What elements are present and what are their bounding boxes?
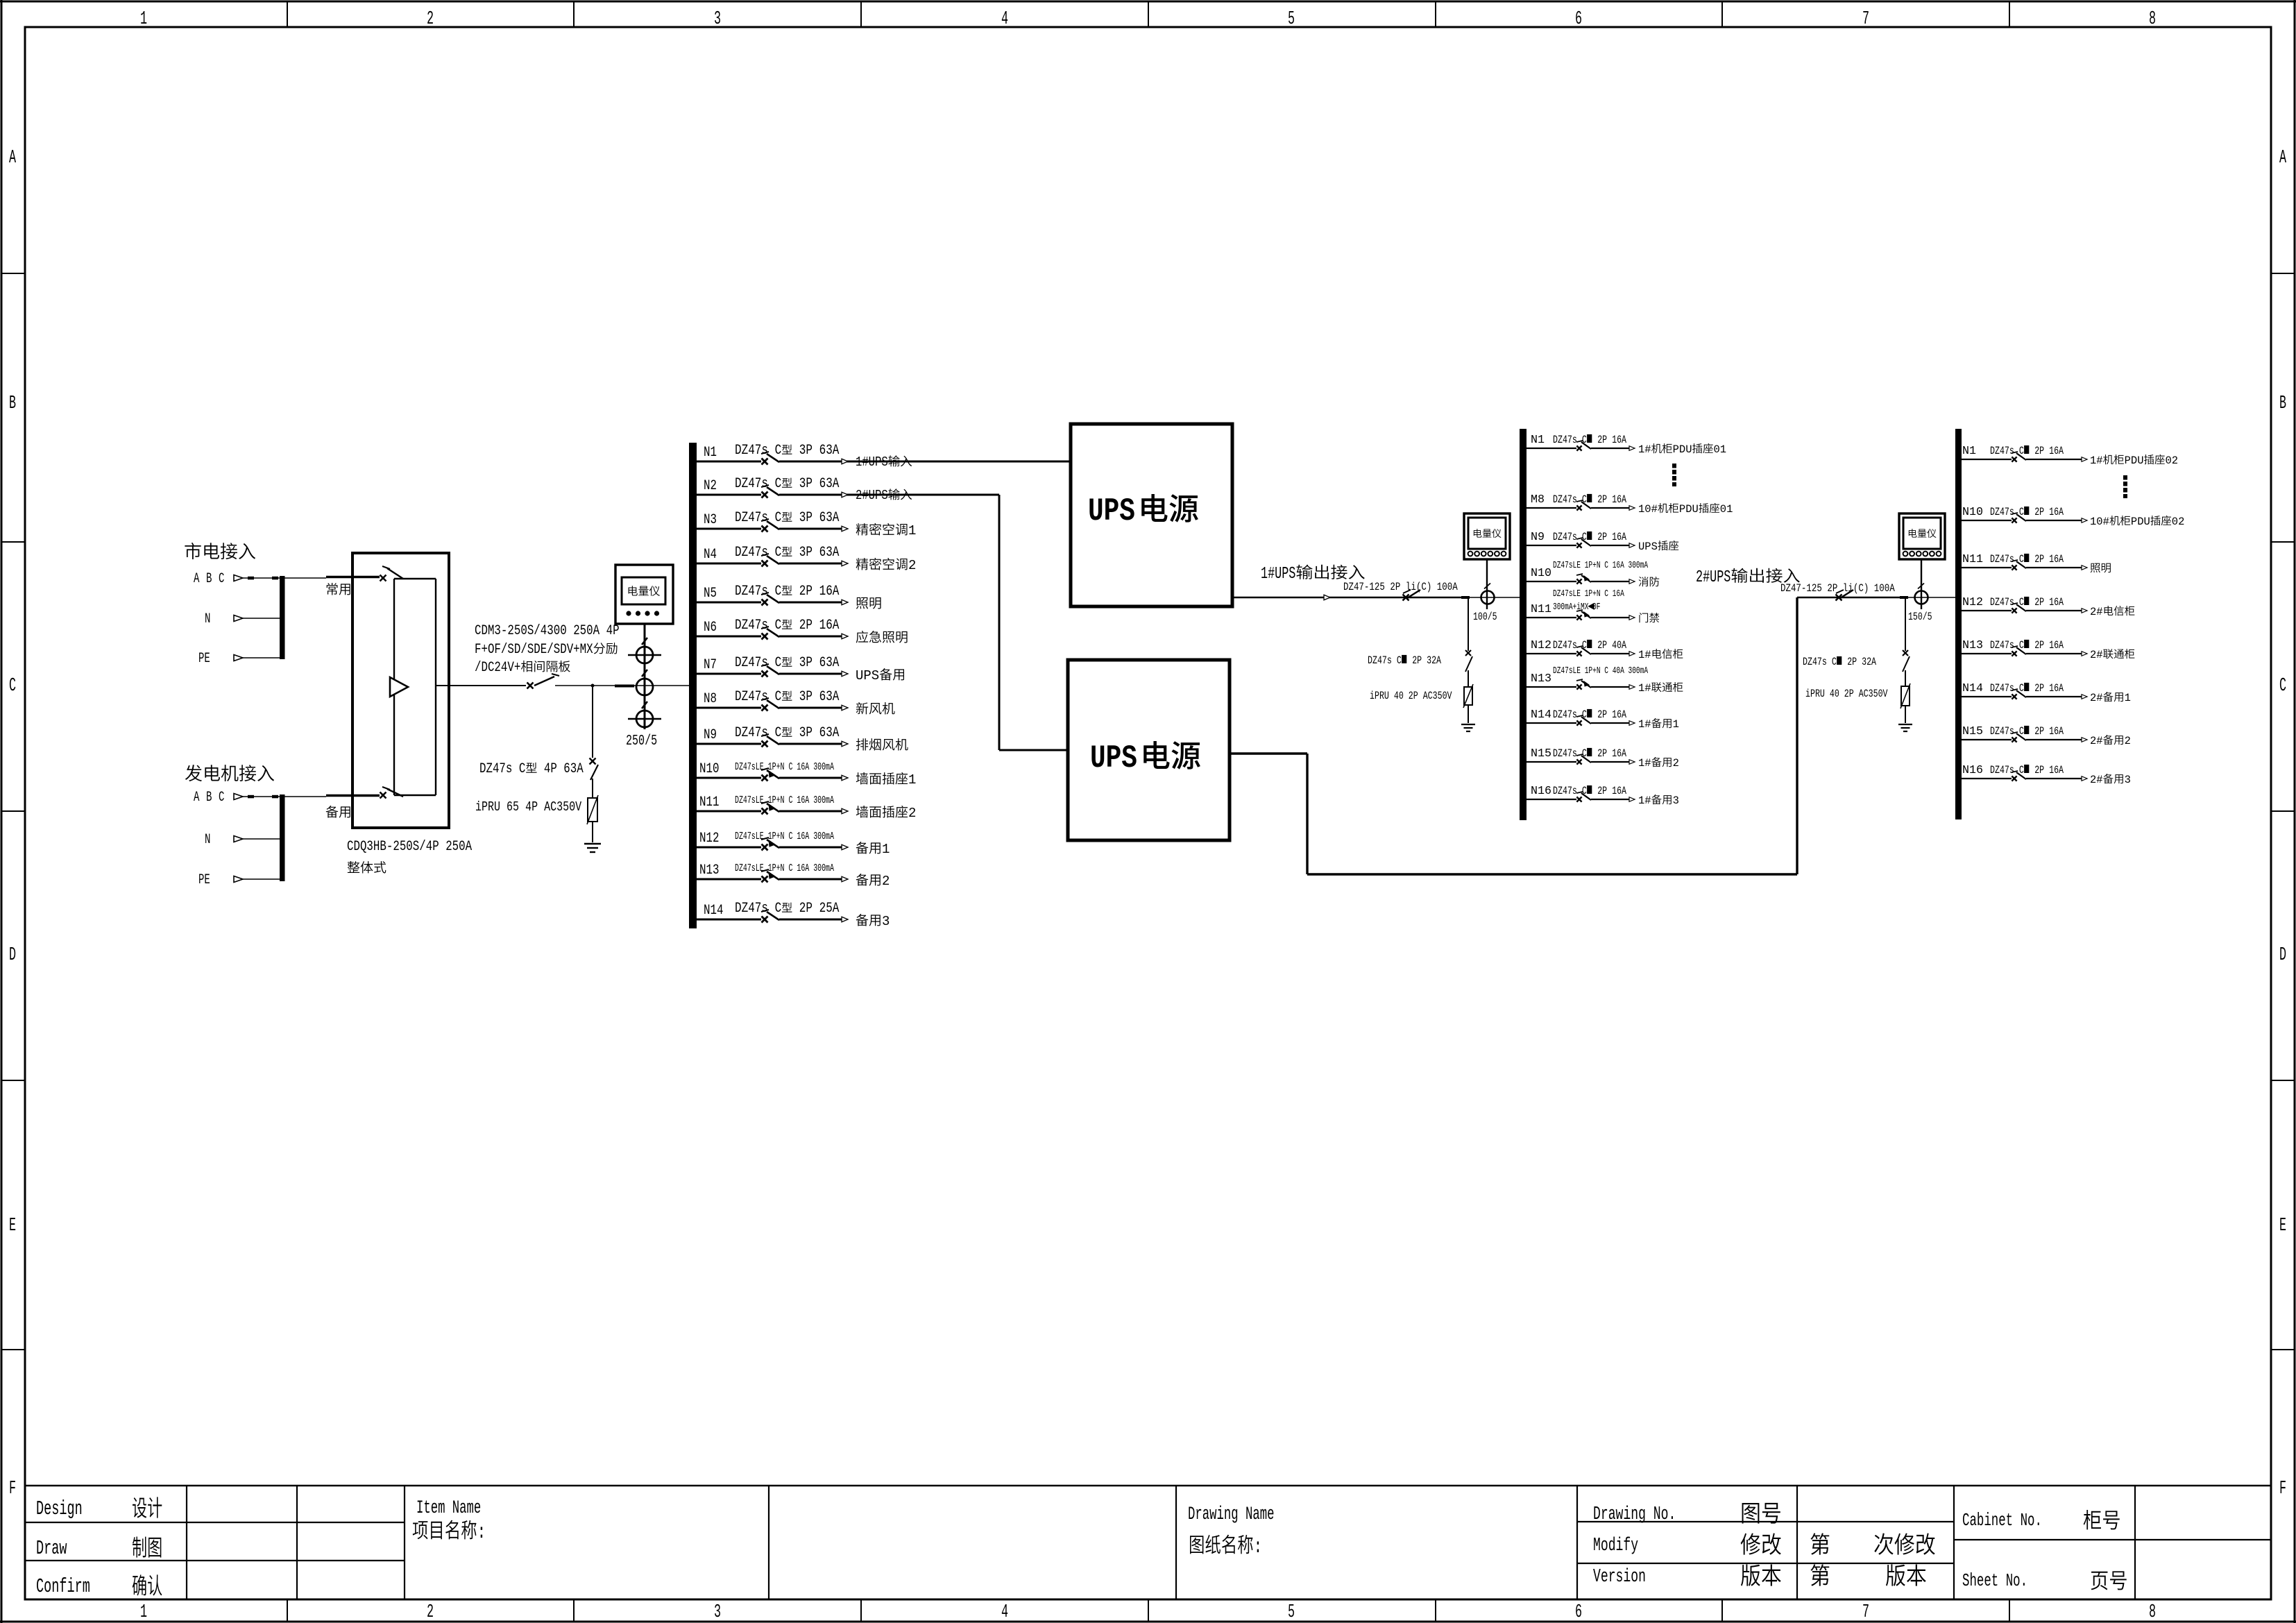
svg-text:16A: 16A xyxy=(1612,786,1627,798)
svg-text:40: 40 xyxy=(1830,689,1839,701)
svg-text:01: 01 xyxy=(1714,443,1727,456)
svg-text:3P: 3P xyxy=(799,726,813,741)
svg-text:DZ47s: DZ47s xyxy=(1553,495,1577,507)
svg-text:100A: 100A xyxy=(1437,581,1458,594)
svg-text:2P: 2P xyxy=(1390,581,1400,594)
svg-text:1#UPS: 1#UPS xyxy=(1261,565,1295,584)
svg-text:16A: 16A xyxy=(2049,597,2064,609)
svg-text:100A: 100A xyxy=(1874,583,1895,595)
svg-text:C: C xyxy=(2279,674,2286,696)
svg-text:C: C xyxy=(775,690,782,705)
svg-text:DZ47s: DZ47s xyxy=(735,511,768,526)
svg-text:No.: No. xyxy=(1653,1504,1676,1525)
svg-text:N6: N6 xyxy=(704,620,717,635)
svg-text:8: 8 xyxy=(2149,8,2156,29)
svg-text:N8: N8 xyxy=(704,691,717,706)
svg-text:2P: 2P xyxy=(2034,726,2044,738)
svg-text:N10: N10 xyxy=(1962,506,1983,519)
svg-text:DZ47s: DZ47s xyxy=(1990,683,2014,695)
svg-text:300mA: 300mA xyxy=(813,761,834,772)
svg-text:16A: 16A xyxy=(1612,749,1627,760)
svg-text::: : xyxy=(1254,1535,1263,1559)
svg-text:UPS: UPS xyxy=(856,668,879,683)
svg-text:63A: 63A xyxy=(819,511,840,526)
svg-text:DZ47s: DZ47s xyxy=(1553,786,1577,798)
svg-text:63A: 63A xyxy=(819,443,840,459)
svg-text:DZ47s: DZ47s xyxy=(735,618,768,634)
svg-text:Drawing: Drawing xyxy=(1188,1503,1239,1524)
svg-text:DZ47s: DZ47s xyxy=(1990,446,2014,458)
svg-text:B: B xyxy=(9,392,16,414)
svg-text:Draw: Draw xyxy=(36,1538,67,1560)
svg-text:25A: 25A xyxy=(819,901,840,917)
svg-text:Drawing: Drawing xyxy=(1593,1504,1646,1525)
svg-text:Modify: Modify xyxy=(1593,1535,1638,1556)
svg-text:DZ47sLE: DZ47sLE xyxy=(1553,665,1581,676)
svg-text:1#: 1# xyxy=(1638,757,1651,770)
svg-text:6: 6 xyxy=(1575,8,1582,29)
svg-text:2P: 2P xyxy=(1847,657,1857,669)
svg-text:C: C xyxy=(775,511,782,526)
svg-text:iPRU: iPRU xyxy=(1370,691,1389,703)
svg-text:1: 1 xyxy=(882,842,890,857)
svg-text:16A: 16A xyxy=(1612,435,1627,447)
svg-text:1P+N: 1P+N xyxy=(768,863,785,874)
svg-text:2P: 2P xyxy=(1597,749,1607,760)
svg-text:2: 2 xyxy=(2125,735,2131,747)
svg-text:DZ47s: DZ47s xyxy=(1553,749,1577,760)
svg-text:DZ47s: DZ47s xyxy=(735,443,768,459)
svg-text:1#: 1# xyxy=(1638,649,1651,661)
svg-text:40: 40 xyxy=(1394,691,1404,703)
svg-text:DZ47s: DZ47s xyxy=(735,477,768,492)
svg-text:N1: N1 xyxy=(704,445,717,460)
svg-text:N13: N13 xyxy=(699,863,719,878)
svg-text:8: 8 xyxy=(2149,1601,2156,1622)
svg-text:N16: N16 xyxy=(1962,764,1983,777)
svg-text:10#: 10# xyxy=(1638,503,1658,516)
svg-text:Sheet: Sheet xyxy=(1962,1571,1998,1591)
svg-text:300mA+iMX: 300mA+iMX xyxy=(1553,601,1588,612)
svg-text:DZ47s: DZ47s xyxy=(1990,765,2014,777)
svg-text:1#UPS: 1#UPS xyxy=(856,456,888,470)
svg-text:C: C xyxy=(789,831,793,842)
svg-text:63A: 63A xyxy=(819,726,840,741)
svg-text:C: C xyxy=(775,443,782,459)
svg-text:16A: 16A xyxy=(1612,495,1627,507)
svg-text:C: C xyxy=(775,545,782,561)
svg-text:02: 02 xyxy=(2166,454,2179,467)
svg-text:3P: 3P xyxy=(799,477,813,492)
svg-text:250/5: 250/5 xyxy=(626,733,657,749)
svg-text:2P: 2P xyxy=(2034,554,2044,566)
svg-text:1P+N: 1P+N xyxy=(768,831,785,842)
svg-text:N11: N11 xyxy=(1531,603,1551,616)
svg-text:DZ47sLE: DZ47sLE xyxy=(735,761,764,772)
svg-text:DZ47s: DZ47s xyxy=(1990,640,2014,652)
svg-text:4P: 4P xyxy=(606,623,620,638)
svg-text:1: 1 xyxy=(2125,692,2131,704)
svg-text:C: C xyxy=(219,572,224,587)
svg-text:Confirm: Confirm xyxy=(36,1576,90,1598)
svg-text:DZ47s: DZ47s xyxy=(735,545,768,561)
svg-text:5: 5 xyxy=(1288,1601,1295,1622)
svg-text:16A: 16A xyxy=(1612,710,1627,722)
svg-text:C: C xyxy=(789,794,793,806)
svg-text:DZ47s: DZ47s xyxy=(1553,435,1577,447)
svg-text:DZ47sLE: DZ47sLE xyxy=(735,794,764,806)
svg-text:Version: Version xyxy=(1593,1566,1646,1588)
svg-text:2#: 2# xyxy=(2090,649,2103,661)
svg-text:N12: N12 xyxy=(1962,596,1983,609)
svg-text:N15: N15 xyxy=(1531,747,1551,760)
svg-text:2P: 2P xyxy=(1597,710,1607,722)
svg-text:4P: 4P xyxy=(544,761,557,776)
svg-text:B: B xyxy=(206,572,212,587)
svg-text:16A: 16A xyxy=(797,794,809,806)
svg-text:16A: 16A xyxy=(2049,683,2064,695)
svg-text:2P: 2P xyxy=(1597,532,1607,544)
svg-text:5: 5 xyxy=(1288,8,1295,29)
svg-text:16A: 16A xyxy=(2049,765,2064,777)
svg-text:N14: N14 xyxy=(704,903,723,918)
svg-text:02: 02 xyxy=(2172,516,2185,528)
svg-text:C: C xyxy=(1832,657,1837,669)
svg-text:2P: 2P xyxy=(2034,683,2044,695)
svg-text:1P+N: 1P+N xyxy=(1585,588,1601,599)
svg-text:PE: PE xyxy=(198,652,210,667)
svg-text:PDU: PDU xyxy=(1679,503,1699,516)
svg-text:PDU: PDU xyxy=(2125,454,2144,467)
svg-text:UPS: UPS xyxy=(1090,740,1137,776)
svg-text:iPRU: iPRU xyxy=(1805,689,1825,701)
svg-text:N5: N5 xyxy=(704,586,717,601)
svg-text:Name: Name xyxy=(452,1497,481,1518)
svg-text:PDU: PDU xyxy=(1673,443,1692,456)
svg-text:63A: 63A xyxy=(563,761,584,776)
svg-text:N16: N16 xyxy=(1531,785,1551,798)
svg-text:1P+N: 1P+N xyxy=(768,761,785,772)
svg-text:2P: 2P xyxy=(2034,446,2044,458)
svg-text:C: C xyxy=(775,901,782,917)
svg-text:N11: N11 xyxy=(1962,553,1983,566)
svg-text:7: 7 xyxy=(1862,1601,1869,1622)
svg-text:2#UPS: 2#UPS xyxy=(1696,568,1730,587)
svg-text:4P: 4P xyxy=(525,801,538,815)
svg-text:C: C xyxy=(789,863,793,874)
svg-text:40A: 40A xyxy=(1612,640,1627,652)
svg-text:A: A xyxy=(194,572,200,587)
svg-text:Item: Item xyxy=(416,1497,445,1518)
svg-text:DZ47s: DZ47s xyxy=(1990,726,2014,738)
svg-text:63A: 63A xyxy=(819,545,840,561)
svg-text:No.: No. xyxy=(2006,1571,2027,1591)
svg-text:300mA: 300mA xyxy=(813,794,834,806)
svg-text:N2: N2 xyxy=(704,478,717,493)
svg-text:Cabinet: Cabinet xyxy=(1962,1511,2013,1531)
svg-text:DZ47sLE: DZ47sLE xyxy=(735,831,764,842)
svg-text:DZ47sLE: DZ47sLE xyxy=(1553,559,1581,570)
svg-text:DZ47sLE: DZ47sLE xyxy=(1553,588,1581,599)
svg-text:2P: 2P xyxy=(2034,597,2044,609)
svg-text:16A: 16A xyxy=(2049,726,2064,738)
svg-text:C: C xyxy=(1604,588,1608,599)
svg-text:DZ47s: DZ47s xyxy=(735,584,768,600)
svg-text:N9: N9 xyxy=(1531,531,1545,544)
svg-text:1#: 1# xyxy=(1638,443,1651,456)
svg-text:2#: 2# xyxy=(2090,774,2103,786)
svg-text:DZ47s: DZ47s xyxy=(1553,710,1577,722)
svg-text:16A: 16A xyxy=(797,831,809,842)
svg-text:1P+N: 1P+N xyxy=(1585,559,1601,570)
svg-text:2#: 2# xyxy=(2090,735,2103,747)
svg-text:40A: 40A xyxy=(1613,665,1625,676)
svg-text:C: C xyxy=(519,761,526,776)
svg-text:N9: N9 xyxy=(704,727,717,742)
svg-text:2P: 2P xyxy=(1597,435,1607,447)
svg-text:3: 3 xyxy=(882,914,890,929)
svg-text:N7: N7 xyxy=(704,657,717,672)
svg-text:65: 65 xyxy=(507,801,519,815)
svg-text:32A: 32A xyxy=(1427,656,1442,668)
svg-text:1: 1 xyxy=(140,1601,147,1622)
svg-text:F: F xyxy=(9,1477,16,1499)
svg-text:iPRU: iPRU xyxy=(475,801,500,815)
svg-text:N15: N15 xyxy=(1962,725,1983,738)
svg-text:16A: 16A xyxy=(797,863,809,874)
svg-text:16A: 16A xyxy=(2049,554,2064,566)
svg-text:C: C xyxy=(1604,559,1608,570)
svg-text:2#: 2# xyxy=(2090,606,2103,618)
svg-text:N11: N11 xyxy=(699,794,719,810)
svg-text:N1: N1 xyxy=(1962,445,1976,458)
svg-text:32A: 32A xyxy=(1862,657,1877,669)
svg-text:2P: 2P xyxy=(1597,640,1607,652)
svg-text:100/5: 100/5 xyxy=(1473,611,1497,623)
svg-text:2P: 2P xyxy=(1597,495,1607,507)
svg-text:C: C xyxy=(775,618,782,634)
svg-text:2P: 2P xyxy=(799,901,813,917)
svg-text:2P: 2P xyxy=(2034,765,2044,777)
svg-text:B: B xyxy=(2279,392,2286,414)
svg-text:4: 4 xyxy=(1001,1601,1008,1622)
svg-text:PDU: PDU xyxy=(2131,516,2150,528)
svg-text:F: F xyxy=(2279,1477,2286,1499)
svg-text:1#: 1# xyxy=(1638,682,1651,695)
svg-text:DZ47sLE: DZ47sLE xyxy=(735,863,764,874)
svg-text:2: 2 xyxy=(908,558,916,573)
svg-text:2#: 2# xyxy=(2090,692,2103,704)
svg-text:E: E xyxy=(2279,1214,2286,1236)
svg-text:63A: 63A xyxy=(819,690,840,705)
svg-text:C: C xyxy=(219,790,224,806)
svg-text:C: C xyxy=(1397,656,1402,668)
svg-text:2#UPS: 2#UPS xyxy=(856,489,888,504)
svg-text:16A: 16A xyxy=(2049,507,2064,519)
svg-text:N12: N12 xyxy=(1531,639,1551,652)
svg-text:2: 2 xyxy=(908,806,916,821)
svg-text:3P: 3P xyxy=(799,690,813,705)
svg-text:N13: N13 xyxy=(1962,639,1983,652)
svg-text:250A: 250A xyxy=(445,839,472,854)
svg-text:PE: PE xyxy=(198,873,210,888)
svg-text:3P: 3P xyxy=(799,511,813,526)
svg-text:A: A xyxy=(194,790,200,806)
svg-text:AC350V: AC350V xyxy=(1859,689,1888,701)
svg-text:DZ47s: DZ47s xyxy=(1368,656,1392,668)
svg-text:300mA: 300mA xyxy=(1629,665,1649,676)
svg-text:2P: 2P xyxy=(1597,786,1607,798)
svg-text:2: 2 xyxy=(882,874,890,889)
svg-text:63A: 63A xyxy=(819,477,840,492)
svg-text:1#: 1# xyxy=(2090,454,2103,467)
svg-text:DZ47s: DZ47s xyxy=(735,901,768,917)
svg-text:/DC24V+: /DC24V+ xyxy=(475,660,520,675)
svg-text:B: B xyxy=(206,790,212,806)
svg-text:1: 1 xyxy=(1673,718,1679,731)
svg-text:DZ47s: DZ47s xyxy=(1553,532,1577,544)
svg-text:D: D xyxy=(2279,944,2286,965)
svg-text:2: 2 xyxy=(427,1601,434,1622)
svg-text:DZ47s: DZ47s xyxy=(479,761,512,776)
svg-text:16A: 16A xyxy=(797,761,809,772)
svg-text:7: 7 xyxy=(1862,8,1869,29)
svg-text:AC350V: AC350V xyxy=(1423,691,1452,703)
svg-text:3P: 3P xyxy=(799,656,813,671)
svg-text:1P+N: 1P+N xyxy=(1585,665,1601,676)
svg-text:16A: 16A xyxy=(1613,588,1625,599)
svg-text:2P: 2P xyxy=(1844,689,1854,701)
svg-text:DZ47s: DZ47s xyxy=(735,726,768,741)
svg-text:N3: N3 xyxy=(704,512,717,527)
svg-text:C: C xyxy=(789,761,793,772)
svg-text:N10: N10 xyxy=(1531,567,1551,580)
svg-text:N12: N12 xyxy=(699,831,719,846)
svg-text:DZ47s: DZ47s xyxy=(735,690,768,705)
svg-text::: : xyxy=(477,1520,486,1545)
svg-text:D: D xyxy=(9,944,16,965)
svg-text:DZ47-125: DZ47-125 xyxy=(1343,581,1385,594)
svg-text:DZ47s: DZ47s xyxy=(1803,657,1827,669)
svg-text:N: N xyxy=(205,833,210,848)
svg-text:1: 1 xyxy=(908,523,916,538)
svg-text:E: E xyxy=(9,1214,16,1236)
svg-text:N1: N1 xyxy=(1531,434,1545,447)
svg-text:C: C xyxy=(775,726,782,741)
svg-text:DZ47s: DZ47s xyxy=(1553,640,1577,652)
svg-text:1#: 1# xyxy=(1638,794,1651,807)
svg-text:3: 3 xyxy=(1673,794,1679,807)
svg-text:2P: 2P xyxy=(1412,656,1422,668)
svg-text:A: A xyxy=(2279,146,2286,168)
svg-text:N: N xyxy=(205,612,210,627)
svg-text:Name: Name xyxy=(1245,1503,1274,1524)
svg-text:2P: 2P xyxy=(1409,691,1418,703)
svg-text:AC350V: AC350V xyxy=(544,801,582,815)
svg-text:N13: N13 xyxy=(1531,672,1551,686)
svg-text:1P+N: 1P+N xyxy=(768,794,785,806)
svg-text:16A: 16A xyxy=(1612,532,1627,544)
svg-text:300mA: 300mA xyxy=(813,863,834,874)
svg-text:DZ47s: DZ47s xyxy=(1990,554,2014,566)
svg-text:DZ47s: DZ47s xyxy=(735,656,768,671)
svg-text:16A: 16A xyxy=(819,584,840,600)
svg-text:N10: N10 xyxy=(699,761,719,776)
svg-text:3: 3 xyxy=(714,1601,721,1622)
svg-text:UPS: UPS xyxy=(1638,541,1658,553)
svg-text:CDM3-250S/4300: CDM3-250S/4300 xyxy=(475,623,567,638)
svg-text:No.: No. xyxy=(2021,1511,2042,1531)
svg-text:6: 6 xyxy=(1575,1601,1582,1622)
svg-text:UPS: UPS xyxy=(1088,493,1135,529)
svg-text:0F: 0F xyxy=(1592,601,1600,612)
svg-text:300mA: 300mA xyxy=(1629,559,1649,570)
svg-text:2P: 2P xyxy=(2034,507,2044,519)
svg-text:C: C xyxy=(775,477,782,492)
svg-text:1: 1 xyxy=(140,8,147,29)
svg-text:N14: N14 xyxy=(1531,708,1551,722)
svg-text:150/5: 150/5 xyxy=(1908,611,1932,623)
svg-text:DZ47s: DZ47s xyxy=(1990,507,2014,519)
svg-text:2: 2 xyxy=(427,8,434,29)
svg-text:DZ47s: DZ47s xyxy=(1990,597,2014,609)
svg-text:DZ47-125: DZ47-125 xyxy=(1780,583,1822,595)
svg-text:16A: 16A xyxy=(819,618,840,634)
svg-text:M8: M8 xyxy=(1531,493,1545,507)
svg-text:F+OF/SD/SDE/SDV+MX: F+OF/SD/SDE/SDV+MX xyxy=(475,642,593,657)
svg-text:2P: 2P xyxy=(2034,640,2044,652)
svg-text:4: 4 xyxy=(1001,8,1008,29)
svg-text:16A: 16A xyxy=(1613,559,1625,570)
svg-text:250A: 250A xyxy=(573,623,599,638)
svg-text:2P: 2P xyxy=(799,584,813,600)
svg-text:A: A xyxy=(9,146,16,168)
svg-text:1: 1 xyxy=(908,772,916,788)
svg-text:C: C xyxy=(9,674,16,696)
svg-text:C: C xyxy=(775,584,782,600)
svg-text:3P: 3P xyxy=(799,443,813,459)
svg-text:63A: 63A xyxy=(819,656,840,671)
svg-text:CDQ3HB-250S/4P: CDQ3HB-250S/4P xyxy=(347,839,439,854)
svg-text:C: C xyxy=(775,656,782,671)
svg-text:2: 2 xyxy=(1673,757,1679,770)
svg-text:01: 01 xyxy=(1720,503,1733,516)
svg-text:N14: N14 xyxy=(1962,682,1983,695)
svg-text:16A: 16A xyxy=(2049,640,2064,652)
svg-text:300mA: 300mA xyxy=(813,831,834,842)
svg-text:3: 3 xyxy=(714,8,721,29)
svg-text:2P: 2P xyxy=(799,618,813,634)
svg-text:10#: 10# xyxy=(2090,516,2109,528)
svg-text:16A: 16A xyxy=(2049,446,2064,458)
svg-text:N4: N4 xyxy=(704,547,717,562)
svg-text:3: 3 xyxy=(2125,774,2131,786)
svg-text:C: C xyxy=(1604,665,1608,676)
svg-text:Design: Design xyxy=(36,1498,83,1520)
svg-text:3P: 3P xyxy=(799,545,813,561)
svg-text:1#: 1# xyxy=(1638,718,1651,731)
